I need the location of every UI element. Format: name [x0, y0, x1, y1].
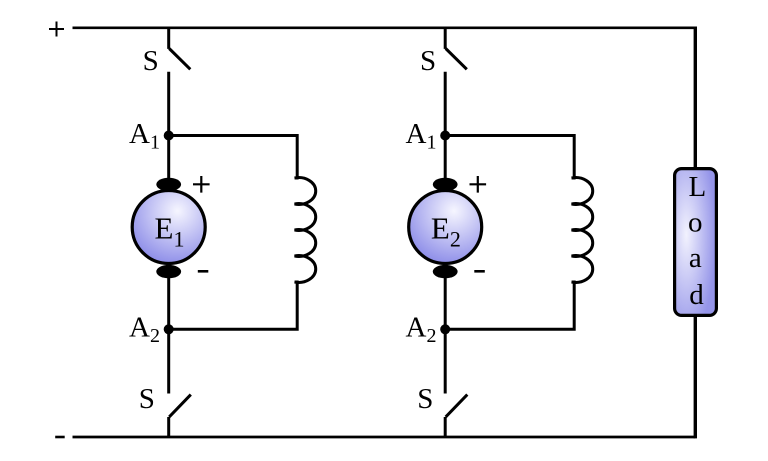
svg-text:d: d — [689, 279, 704, 311]
svg-text:A1: A1 — [406, 118, 437, 154]
svg-text:S: S — [420, 45, 436, 77]
svg-text:A2: A2 — [129, 312, 160, 348]
svg-text:S: S — [417, 383, 433, 415]
svg-text:a: a — [689, 242, 702, 274]
svg-text:A1: A1 — [129, 118, 160, 154]
svg-text:L: L — [688, 171, 706, 203]
svg-text:o: o — [688, 207, 703, 239]
svg-text:A2: A2 — [406, 312, 437, 348]
svg-text:S: S — [139, 383, 155, 415]
svg-text:S: S — [143, 45, 159, 77]
